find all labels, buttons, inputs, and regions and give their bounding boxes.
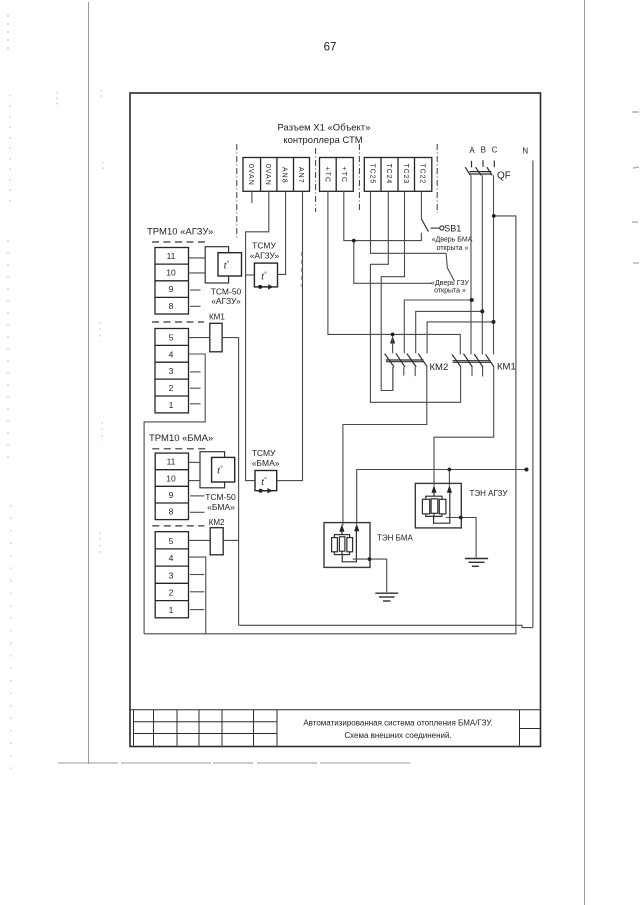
svg-text:открыта »: открыта » [437, 245, 469, 252]
wire TC22 to SB1 blade [420, 192, 422, 219]
svg-text:10: 10 [166, 268, 176, 278]
svg-text:AN7: AN7 [297, 167, 304, 184]
junction at TEN AGZU box edge [459, 516, 463, 520]
svg-text:КМ2: КМ2 [209, 518, 225, 527]
door GZU switch fixed lead [446, 253, 447, 267]
svg-text:SB1: SB1 [444, 224, 461, 234]
terminal stack АГЗУ 11-8 [155, 248, 189, 315]
QF pole B blade [476, 167, 482, 175]
svg-text:TC22: TC22 [418, 164, 425, 185]
TEN AGZU terminal arrow 1 [431, 485, 436, 493]
TEN AGZU element assembly [433, 492, 435, 496]
phase C wire QF to KM1 [493, 175, 495, 354]
svg-text:«БМА»: «БМА» [252, 458, 280, 468]
junction phase A to KM2 [470, 298, 474, 302]
svg-text:ТРМ10 «БМА»: ТРМ10 «БМА» [149, 433, 213, 444]
KM2 blade 3 [407, 354, 416, 367]
svg-text:ТСМУ: ТСМУ [252, 241, 276, 251]
terminal stack БМА 5-1 [155, 532, 188, 618]
KM2 pole3 bottom stub [414, 367, 416, 376]
transmitter TCMY АГЗУ box [254, 263, 277, 287]
KM2 blade 1 [385, 354, 395, 368]
sensor TCM-50 АГЗУ t° box [218, 253, 242, 276]
svg-text:4: 4 [169, 553, 174, 563]
stub pin2 [190, 591, 204, 593]
junction at TEN BMA box edge [368, 557, 372, 561]
TEN AGZU terminal arrow 2 [447, 485, 452, 493]
svg-text:+TC: +TC [340, 167, 347, 183]
dash-dot group separators of connector X1 [237, 144, 437, 240]
TEN AGZU enclosure box [415, 483, 461, 528]
ground symbol TEN AGZU [465, 559, 488, 567]
wire KM2 coil joins N return line [223, 539, 238, 541]
svg-text:QF: QF [497, 171, 511, 182]
svg-text:0VAN: 0VAN [264, 164, 271, 186]
transmitter TCMY БМА box [255, 471, 277, 491]
wire pin11 to TCM-50 БМА [189, 461, 201, 463]
terminal block group 1: 0VAN 0VAN AN8 AN7 [243, 158, 310, 192]
svg-text:ТРМ10 «АГЗУ»: ТРМ10 «АГЗУ» [147, 227, 213, 238]
svg-text:AN8: AN8 [280, 167, 287, 184]
junction KM2 aux feed [391, 333, 395, 337]
svg-text:TC25: TC25 [368, 164, 375, 185]
svg-text:0VAN: 0VAN [247, 164, 254, 186]
svg-text:ТСМ-50: ТСМ-50 [211, 287, 242, 297]
stub pin9 [190, 289, 201, 291]
KM1 pole3 bottom stub [482, 367, 484, 376]
TEN BMA element assembly [341, 531, 343, 535]
svg-text:67: 67 [324, 42, 337, 54]
stub pin1 [190, 609, 204, 611]
svg-text:ТЭН АГЗУ: ТЭН АГЗУ [470, 489, 509, 498]
wire branch 0VAN to TCMY АГЗУ left [246, 274, 255, 276]
QF pole A input stub [471, 161, 473, 168]
svg-text:«АГЗУ»: «АГЗУ» [250, 251, 280, 261]
wire pin11 to TCM-50 [189, 257, 206, 259]
KM1 pole4 output to TEN AGZU [434, 367, 494, 486]
junction phase B to KM2 [480, 309, 484, 313]
wire pin10 to TCM-50 БМА [189, 480, 201, 482]
svg-text:5: 5 [169, 333, 174, 343]
junction phase C branch [492, 214, 496, 218]
junction phase C to KM2 [492, 320, 496, 324]
junction neutral to TEN AGZU [448, 468, 452, 472]
svg-text:8: 8 [169, 507, 174, 517]
svg-text:Автоматизированная система ото: Автоматизированная система отопления БМА… [303, 719, 492, 728]
TEN BMA terminal arrow 1 [339, 524, 344, 532]
dashed boundary between БМА 8 and 5 [152, 525, 204, 527]
TEN BMA terminal arrow 2 [354, 524, 359, 532]
junction neutral end dot [525, 468, 529, 472]
wire TEN BMA to ground [353, 559, 387, 592]
coil return to N [239, 625, 533, 627]
dashed boundary above АГЗУ terminals 11-8 [152, 241, 206, 243]
QF linkage bar [469, 171, 491, 173]
sensor TCM-50 АГЗУ bracket [205, 247, 228, 283]
KM1 blade 4 [486, 354, 495, 367]
svg-text:N: N [522, 147, 528, 156]
svg-text:ТЭН БМА: ТЭН БМА [377, 534, 414, 543]
wire pin5 to KM1 coil [189, 337, 210, 339]
svg-text:открыта »: открыта » [434, 288, 466, 295]
svg-text:TC24: TC24 [385, 164, 392, 185]
svg-text:5: 5 [169, 536, 174, 546]
sensor TCM-50 БМА t° box [212, 457, 235, 482]
stub pin8 [190, 511, 204, 513]
svg-text:8: 8 [169, 301, 174, 311]
neutral distribution line [357, 470, 527, 525]
wire TC23 to KM2 aux bottom [381, 192, 404, 391]
svg-text:КМ2: КМ2 [430, 362, 449, 373]
svg-text:2: 2 [169, 588, 174, 598]
dashed boundary between АГЗУ 8 and 5 [152, 321, 204, 323]
TCMY АГЗУ output dot-arrow symbol [258, 285, 262, 289]
TEN BMA bottom loop to terminal 2 [342, 531, 356, 562]
KM2 aux arrow [390, 336, 395, 344]
wire 0VAN-2 to TCMY common [246, 191, 269, 480]
svg-text:ТСМ-50: ТСМ-50 [205, 492, 236, 502]
svg-text:9: 9 [169, 284, 174, 294]
svg-text:2: 2 [169, 383, 174, 393]
terminal stack АГЗУ 5-1 [155, 329, 189, 413]
wire pin5 to KM2 coil [189, 539, 211, 541]
svg-text:Схема внешних соединений.: Схема внешних соединений. [344, 731, 451, 740]
KM2 blade 4 [418, 354, 427, 367]
svg-text:11: 11 [167, 457, 176, 467]
svg-text:«АГЗУ»: «АГЗУ» [211, 296, 241, 306]
svg-text:контроллера СТМ: контроллера СТМ [283, 135, 362, 146]
coil KM2 [210, 528, 223, 555]
terminal block group 3: TC25 TC24 TC23 TC22 [364, 158, 432, 192]
wire AN8 to TCMY АГЗУ right [278, 191, 286, 274]
neutral N wire [532, 160, 534, 627]
QF pole A blade [465, 167, 470, 175]
KM2 aux bottom loop [381, 367, 393, 391]
wire TEN AGZU to ground [446, 518, 476, 558]
dashed boundary above БМА terminals 11-8 [152, 448, 208, 450]
wire +TC common down to door GZU switch [354, 241, 432, 284]
phase A wire QF to KM1 [470, 175, 472, 354]
QF pole C blade [487, 167, 492, 175]
phase B feed to KM2 pole3 [416, 311, 483, 353]
svg-text:A: A [469, 146, 475, 155]
TEN BMA enclosure box [324, 523, 370, 568]
wire TC24 jog left [370, 192, 460, 402]
wire TC25 to door GZU switch [371, 192, 447, 253]
svg-text:1: 1 [169, 400, 174, 410]
phase C branch to TPM link [144, 216, 516, 634]
svg-text:10: 10 [166, 474, 176, 484]
wire AN7 to TCMY БМА right [277, 191, 303, 480]
svg-text:ТСМУ: ТСМУ [252, 448, 276, 458]
phase A feed to KM2 pole2 [404, 300, 471, 353]
svg-text:C: C [492, 146, 498, 155]
wire +TC-1 down to KM aux feed [328, 191, 460, 354]
terminal stack БМА 11-8 [155, 453, 188, 519]
QF pole B input stub [482, 160, 484, 167]
ground symbol TEN BMA [375, 593, 398, 601]
KM1 blade 3 [474, 354, 483, 367]
TEN AGZU bottom loop to terminal 2 [434, 493, 450, 524]
wire pin10 to TCM-50 [189, 272, 206, 274]
svg-text:КМ1: КМ1 [497, 362, 516, 373]
stub pin1 [190, 403, 201, 405]
junction +TC common [352, 239, 356, 243]
svg-text:«БМА»: «БМА» [207, 502, 235, 512]
svg-text:3: 3 [169, 571, 174, 581]
KM2 blade 2 [396, 353, 405, 367]
svg-text:TC23: TC23 [402, 164, 409, 185]
KM2 aux top stub [392, 336, 394, 353]
KM2 pole4 output to TEN BMA [343, 367, 427, 526]
KM1 linkage bar [453, 360, 491, 362]
sensor TCM-50 БМА bracket [200, 452, 225, 488]
stub pin2 [190, 387, 201, 389]
TCMY БМА output dot-arrow symbol [259, 489, 263, 493]
KM2 pole2 bottom stub [403, 367, 405, 375]
svg-text:11: 11 [167, 251, 176, 261]
KM1 blade 1 [452, 354, 461, 367]
phase B wire QF to KM1 [481, 175, 483, 354]
svg-text:Разъем X1 «Объект»: Разъем X1 «Объект» [278, 123, 371, 134]
stub pin3 [190, 574, 204, 576]
svg-text:«Дверь БМА: «Дверь БМА [432, 237, 473, 244]
QF pole C input stub [493, 161, 495, 168]
svg-text:9: 9 [169, 490, 174, 500]
switch SB1 blade [421, 219, 428, 232]
wire neutral to TEN AGZU terminal 2 [448, 470, 450, 486]
door GZU switch blade [447, 268, 454, 282]
stub pin9 [190, 495, 204, 497]
svg-text:«Дверь ГЗУ: «Дверь ГЗУ [431, 280, 469, 287]
svg-text:B: B [481, 146, 486, 155]
svg-text:+TC: +TC [323, 167, 330, 183]
wire +TC-2 down to SB1 common [344, 191, 422, 240]
switch SB1 actuator link [431, 227, 440, 229]
wire БМА pin4 down to bottom link [189, 557, 206, 634]
wire АГЗУ pin4 down-left-down to phase C link [144, 354, 205, 634]
KM1 blade 2 [464, 354, 473, 368]
svg-text:4: 4 [169, 350, 174, 360]
wire KM1 coil to N return [222, 338, 239, 626]
svg-text:КМ1: КМ1 [209, 313, 225, 322]
stub pin3 [190, 371, 201, 373]
phase C feed to KM2 pole4 [427, 322, 493, 354]
wire 0VAN stub [251, 191, 253, 203]
KM1 pole2 bottom stub [471, 367, 473, 376]
switch SB1 actuator circle [440, 226, 444, 230]
terminal block group 2: +TC +TC [320, 158, 354, 192]
coil KM1 [210, 323, 222, 352]
svg-text:3: 3 [169, 366, 174, 376]
svg-text:1: 1 [169, 605, 174, 615]
stub pin8 [190, 305, 201, 307]
KM2 linkage bar [386, 359, 424, 361]
